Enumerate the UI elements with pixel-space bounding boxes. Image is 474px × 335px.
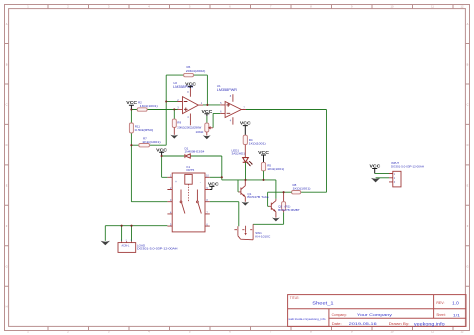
relay dashed actuator line [188,184,190,202]
wire R10 branch down to switch line [253,212,284,224]
resistor R4 [243,135,247,144]
svg-text:KH-1010C: KH-1010C [255,235,271,239]
svg-text:1KΩ(1001): 1KΩ(1001) [293,187,311,191]
svg-text:FRT5: FRT5 [187,168,195,172]
wire collector node horizontal [222,179,276,181]
svg-text:B: B [467,62,469,66]
wire relay pin3 [131,201,167,203]
svg-text:1N4008-E3/54: 1N4008-E3/54 [185,150,205,154]
svg-text:1KΩ(1001): 1KΩ(1001) [142,140,161,144]
wire RP1 to ground [206,132,208,136]
wire VCC down to relay pin1 [162,156,168,177]
svg-text:REV:: REV: [436,301,444,305]
svg-text:D: D [467,143,469,147]
wire INPUT pin2 to ground [376,177,389,179]
op-amp U1 [217,84,246,124]
wire U2 pin2 input [166,101,177,103]
resistor R5 [261,162,265,170]
ground (LOAD) [101,241,110,246]
relay pin numbers [170,174,172,227]
svg-text:VCC: VCC [156,147,167,152]
wire R7 line [131,144,166,146]
svg-text:TITLE:: TITLE: [290,296,300,300]
svg-text:E: E [467,184,469,188]
svg-text:20KΩ(2002): 20KΩ(2002) [186,69,206,73]
svg-text:3A52HD1: 3A52HD1 [232,152,246,156]
connector LOAD DG301 [118,240,178,253]
svg-text:VCC: VCC [126,100,137,105]
svg-text:B: B [6,62,8,66]
svg-text:A: A [6,22,8,26]
svg-text:A: A [467,22,469,26]
relay pin stubs right [205,177,210,226]
svg-text:INPUT: INPUT [391,161,399,165]
ground (Q1) [241,202,249,206]
wire left vertical bus R2/R11/R7/relay pin3 [130,110,132,202]
svg-text:Your Company: Your Company [357,312,392,317]
svg-text:VCC: VCC [258,150,269,155]
wire R8 to Q2 base detour [268,192,292,206]
power flag VCC (D1 line) [156,147,167,156]
resistor R8 [292,191,301,194]
svg-text:G: G [6,265,8,269]
potentiometer RP1 [205,123,213,132]
svg-text:C: C [467,103,469,107]
resistor R9 [172,119,176,127]
svg-text:1KΩ(1001): 1KΩ(1001) [140,104,158,108]
transistor Q1 [238,180,269,202]
power flag VCC (R4) [240,121,251,136]
svg-text:D: D [6,143,8,147]
svg-text:BC547B Tube: BC547B Tube [247,195,269,199]
svg-text:0.5Ω(R50): 0.5Ω(R50) [135,128,154,132]
op-amp U2 [173,81,203,125]
wire Q2 collector up [275,180,277,199]
wire RP1 wiper to U1 pin6 [213,113,220,127]
frame zone ticks bottom [48,326,453,330]
svg-text:-: - [200,180,201,184]
svg-text:H: H [6,305,8,309]
ground (RP1) [203,135,211,139]
wire feedback left vertical (R6 / U2 pin2) [166,75,207,145]
resistor R2 [137,108,147,111]
ground (INPUT) [371,178,380,183]
svg-text:G: G [466,265,468,269]
svg-text:1KΩ(1001): 1KΩ(1001) [249,142,266,146]
resistor R11 [129,123,133,133]
svg-text:DG301-5.0-03P-12-00AH: DG301-5.0-03P-12-00AH [391,164,424,168]
power flag VCC (INPUT) [370,164,381,174]
wire ground line / relay pin5 [105,225,167,227]
resistor R10 [282,192,286,212]
svg-text:1/1: 1/1 [453,313,461,318]
svg-text:yeekong.info: yeekong.info [414,321,446,326]
title block [288,295,466,327]
frame zone ticks top [48,5,453,9]
svg-text:Company:: Company: [332,313,347,317]
relay K1 [167,165,209,232]
svg-text:Sheet:: Sheet: [436,313,445,317]
wire U2 out to U1 pin5 [203,104,220,106]
svg-text:Drawn By:: Drawn By: [389,322,410,326]
wire R4 to LED1 [244,145,246,158]
relay coil [185,174,192,184]
wire U2 pin3 to R9 [173,109,175,119]
power flag VCC (R5) [258,150,269,162]
wire relay pin10 to node [210,176,222,178]
diode D1 [185,146,205,158]
svg-text:20KΩ(2002)3296W: 20KΩ(2002)3296W [177,125,201,129]
wire ground stem (LOAD) [104,226,106,241]
LED LED1 [232,148,253,166]
svg-text:10KΩ: 10KΩ [196,130,205,134]
relay contact left [180,190,182,201]
junction dots [121,100,285,226]
svg-text:1.0: 1.0 [452,301,459,306]
connector INPUT DG301 [389,161,424,187]
wire loads verticals [122,226,132,242]
svg-text:VCC: VCC [370,164,381,169]
frame zone ticks left [5,44,9,287]
wire D1 line [162,155,222,157]
svg-text:AC/N-L: AC/N-L [122,244,131,247]
svg-text:Sheet_1: Sheet_1 [312,300,334,305]
power flag VCC (relay pin9) [208,182,219,190]
wire VCC to INPUT pin1 [375,173,389,175]
ground (Q2) [272,218,280,222]
wire U1 out big loop to R8 [246,110,327,193]
power flag VCC (R2 input) [126,100,137,109]
svg-text:web:lceda.cn/yeekong_info: web:lceda.cn/yeekong_info [289,317,327,321]
svg-text:2019-05-16: 2019-05-16 [349,321,378,326]
resistor R6 [184,73,194,76]
wire relay pin10 / D1 vertical [221,156,223,180]
wire LED1 to collector node [245,162,247,180]
svg-text:VCC: VCC [202,109,213,114]
svg-text:VCC: VCC [208,182,219,187]
frame zone ticks right [465,44,469,287]
wire VCC to R2 to U2 pin3 [131,109,177,111]
svg-text:Date:: Date: [332,322,342,326]
switch SW1 [234,224,271,240]
relay contact right [196,190,198,201]
svg-text:LM358PWR: LM358PWR [217,88,238,92]
svg-text:BC547B MMBT: BC547B MMBT [278,208,300,212]
wire relay pin8 to SW1 [210,202,239,227]
transistor Q2 [269,199,300,218]
svg-text:VCC: VCC [240,121,251,126]
svg-text:E: E [6,184,8,188]
ground (R9) [170,135,178,139]
svg-text:+: + [175,180,177,184]
wire R9 to ground [173,127,175,134]
relay pin stubs left [167,177,172,226]
wire VCC to RP1 [206,116,208,123]
svg-text:1KΩ(1001): 1KΩ(1001) [267,167,284,171]
svg-text:R9: R9 [177,121,181,125]
power flag VCC (RP1) [202,109,213,116]
resistor R7 [139,144,150,147]
power flag VCC (U2 pin8) [185,81,196,88]
svg-text:C: C [6,103,8,107]
svg-text:DG301-5.0-03P-12-00AH: DG301-5.0-03P-12-00AH [137,247,178,251]
wire R5 to collector node [263,171,265,180]
svg-text:VCC: VCC [185,81,196,86]
